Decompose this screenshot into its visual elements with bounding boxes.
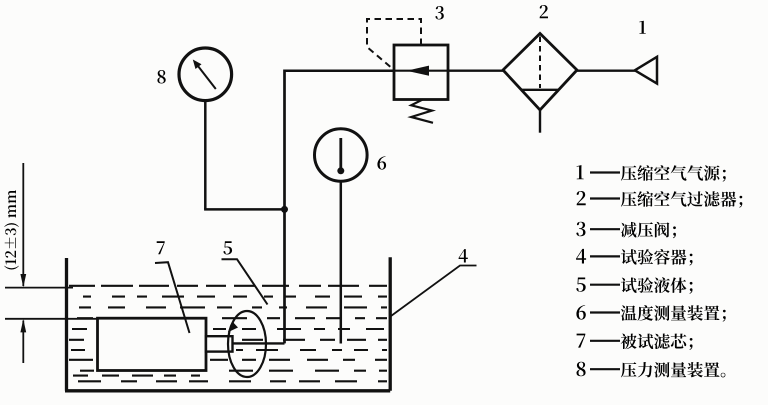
legend line 7 dash bbox=[590, 340, 620, 342]
legend line 8 text bbox=[621, 362, 726, 378]
dimension arrow up bbox=[20, 319, 26, 332]
test vessel 4 walls bbox=[65, 257, 390, 391]
seal ring ellipse bbox=[228, 311, 266, 377]
dimension line upper segment bbox=[22, 163, 24, 286]
legend line 6 number bbox=[576, 305, 585, 320]
dimension text (12±3) mm bbox=[4, 190, 19, 270]
legend line 1 dash bbox=[590, 171, 620, 173]
legend line 3 text bbox=[621, 222, 676, 238]
seal ring arrowhead bbox=[228, 322, 238, 333]
dimension line lower segment bbox=[22, 321, 24, 364]
label 8 bbox=[157, 70, 165, 84]
wire: gauge 8 stem bbox=[204, 101, 207, 210]
wire: source 1 to filter 2 bbox=[577, 69, 636, 71]
wire: valve 3 to down pipe bbox=[285, 69, 395, 72]
dimension extension line upper (liquid surface) bbox=[5, 287, 73, 289]
legend line 6 text bbox=[621, 305, 726, 322]
junction node bbox=[281, 206, 288, 213]
legend line 8 dash bbox=[590, 368, 620, 370]
valve 3 flow line bbox=[394, 70, 448, 72]
legend line 4 text bbox=[621, 249, 693, 265]
label 1 bbox=[639, 21, 646, 34]
legend line 1 text bbox=[621, 165, 726, 181]
label 7 bbox=[157, 241, 165, 254]
test filter element 7 bbox=[98, 318, 207, 370]
legend line 5 dash bbox=[590, 284, 620, 286]
legend line 7 text bbox=[621, 334, 693, 350]
filter 2 dashed centerline bbox=[539, 37, 541, 89]
legend line 7 number bbox=[577, 334, 586, 348]
wire: filter 2 to valve 3 bbox=[448, 69, 503, 71]
pressure reducing valve 3 body bbox=[394, 45, 448, 100]
label 4 leader line bbox=[391, 266, 477, 317]
legend line 1 number bbox=[577, 165, 584, 179]
temperature device 6 circle bbox=[315, 129, 368, 182]
legend line 3 dash bbox=[590, 228, 620, 230]
filter 2 drain stub bbox=[539, 110, 541, 133]
test liquid 5 dashes bbox=[69, 286, 387, 382]
label 7 leader line bbox=[155, 262, 190, 333]
wire: connector to down pipe bbox=[233, 342, 285, 344]
legend line 4 dash bbox=[590, 255, 620, 257]
legend line 4 number bbox=[576, 249, 586, 264]
valve 3 spring bbox=[411, 99, 433, 122]
legend line 5 text bbox=[621, 277, 693, 294]
wire: gauge to junction bbox=[204, 208, 284, 211]
label 5 bbox=[223, 241, 232, 254]
dimension arrow down bbox=[20, 274, 26, 287]
gauge 8 needle bbox=[197, 65, 216, 89]
filter 2 separator line bbox=[521, 89, 559, 91]
air filter 2 (diamond) bbox=[503, 34, 577, 111]
thermometer 6 probe stem bbox=[340, 181, 343, 343]
label 6 bbox=[377, 156, 386, 170]
valve 3 pilot dashed line bbox=[367, 19, 421, 70]
legend line 2 text bbox=[621, 191, 742, 207]
label 4 bbox=[459, 249, 468, 262]
legend line 5 number bbox=[576, 278, 585, 292]
pressure gauge 8 bbox=[179, 48, 232, 101]
label 5 leader line bbox=[222, 259, 268, 304]
thermometer 6 bulb dot bbox=[337, 167, 344, 174]
legend line 2 dash bbox=[590, 197, 620, 199]
valve 3 flow arrowhead bbox=[407, 66, 430, 76]
legend line 6 dash bbox=[590, 311, 620, 313]
filter element outlet connector bbox=[206, 336, 233, 351]
compressed air source 1 (triangle) bbox=[635, 57, 657, 84]
legend line 2 number bbox=[577, 191, 586, 205]
pipe down into tank bbox=[283, 70, 286, 344]
label 3 bbox=[435, 6, 443, 20]
legend line 8 number bbox=[577, 362, 586, 377]
thermometer 6 column bbox=[339, 138, 342, 170]
label 2 bbox=[540, 5, 548, 18]
dimension extension line lower (filter top) bbox=[5, 318, 98, 320]
legend line 3 number bbox=[576, 222, 585, 237]
gauge 8 needle arrowhead bbox=[193, 60, 202, 70]
